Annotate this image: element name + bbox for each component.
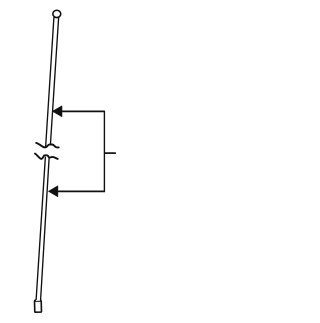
ball tip [53, 10, 61, 17]
arrow bottom [48, 186, 58, 197]
leader line bottom [57, 190, 104, 192]
break mark bottom [35, 154, 58, 159]
antenna lower segment [36, 157, 49, 301]
break mark top [36, 143, 59, 148]
arrow top [52, 106, 62, 117]
bracket vertical [103, 111, 105, 193]
antenna upper segment [46, 18, 59, 146]
ferrule tip [34, 300, 42, 312]
tick [104, 152, 116, 154]
leader line top [61, 110, 104, 112]
